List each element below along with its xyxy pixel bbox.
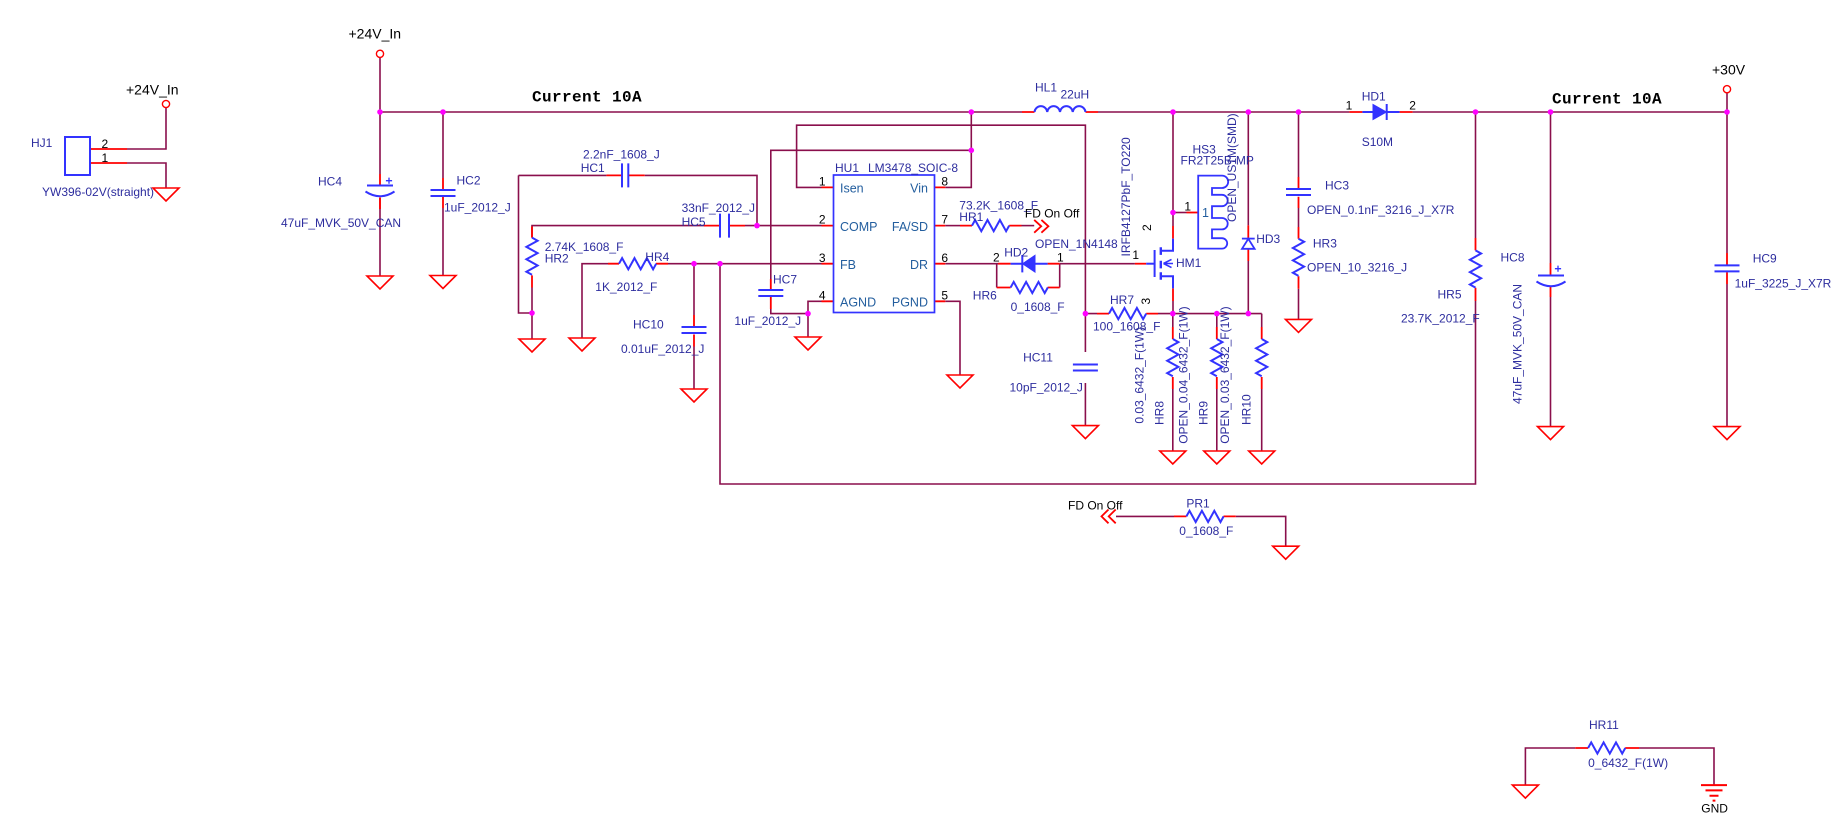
resistor HR2 <box>526 238 537 275</box>
svg-text:2: 2 <box>102 137 109 151</box>
svg-text:DR: DR <box>910 258 928 272</box>
wire HR8 legs <box>1172 314 1174 451</box>
wire sense row <box>1173 313 1262 315</box>
svg-text:6: 6 <box>941 251 948 265</box>
wire HM1 drain to bus <box>1172 112 1174 226</box>
wire HL1 stubs <box>1022 111 1098 113</box>
ground at HC8 <box>1538 427 1564 440</box>
svg-text:1: 1 <box>1346 99 1353 113</box>
wire HM1 source down to sense row <box>1172 301 1174 314</box>
ground at HC10 <box>681 389 707 402</box>
svg-text:OPEN_0.03_6432_F(1W): OPEN_0.03_6432_F(1W) <box>1218 306 1232 443</box>
svg-text:HR7: HR7 <box>1110 293 1134 307</box>
svg-text:HC3: HC3 <box>1325 179 1349 193</box>
capacitor HC4 (polarized) <box>366 178 395 197</box>
wire HR10 stubs <box>1261 327 1263 389</box>
svg-text:2: 2 <box>1409 99 1416 113</box>
svg-text:23.7K_2012_F: 23.7K_2012_F <box>1401 312 1480 326</box>
wire +24V_In terminal drop <box>379 58 381 113</box>
svg-text:FA/SD: FA/SD <box>892 220 928 234</box>
wire HR6 stubs <box>997 287 1060 289</box>
transistor HM1 (N-MOSFET) <box>1146 239 1173 289</box>
svg-text:+24V_In: +24V_In <box>126 82 179 98</box>
wire HC5 stubs <box>704 225 745 227</box>
capacitor HC2 <box>431 190 456 196</box>
node switch/drain tap <box>1170 109 1176 115</box>
wire HR11 stubs <box>1575 747 1639 749</box>
node COMP/HC1/HC5 <box>754 223 760 229</box>
svg-text:3: 3 <box>1139 298 1153 305</box>
node HC3 tap <box>1296 109 1302 115</box>
svg-text:HD2: HD2 <box>1004 246 1028 260</box>
wire Isen pin loop over to HR7 <box>797 125 1086 313</box>
svg-text:+30V: +30V <box>1712 62 1746 78</box>
wire HJ1 pin 1 stub <box>90 162 127 164</box>
wire HC11 branch below HR7 junction <box>1084 314 1086 426</box>
svg-text:PR1: PR1 <box>1186 496 1210 510</box>
svg-text:HR4: HR4 <box>645 250 669 264</box>
wire PR1 row <box>1116 516 1286 546</box>
wire FB feedback loop bottom <box>720 264 1476 484</box>
wire +30V terminal drop <box>1726 93 1728 112</box>
svg-text:0_6432_F(1W): 0_6432_F(1W) <box>1588 756 1668 770</box>
wire Vin branch: bus down to pin 8 <box>945 112 971 187</box>
ground at HR4 <box>569 338 595 351</box>
svg-text:FB: FB <box>840 258 856 272</box>
wire HS3 pin1 stub <box>1187 212 1199 214</box>
terminal +24V_In (HJ1) <box>162 100 169 107</box>
wire HM1 source stub <box>1172 288 1174 301</box>
diode HD2 (pointing left) <box>1011 255 1048 272</box>
svg-text:HR9: HR9 <box>1197 401 1211 425</box>
connector HJ1 <box>65 137 90 175</box>
capacitor HC8 (polarized) <box>1537 266 1566 287</box>
svg-text:7: 7 <box>941 213 948 227</box>
svg-text:OPEN_0.1nF_3216_J_X7R: OPEN_0.1nF_3216_J_X7R <box>1307 203 1455 217</box>
wire HJ1 pin 2 stub <box>90 148 127 150</box>
wire HC3 stubs <box>1298 177 1300 208</box>
svg-text:10pF_2012_J: 10pF_2012_J <box>1010 381 1083 395</box>
svg-text:47uF_MVK_50V_CAN: 47uF_MVK_50V_CAN <box>281 216 401 230</box>
wire +24V_In bus left segment <box>380 111 1022 113</box>
wire HD1 stubs <box>1349 111 1412 113</box>
wire HR9 legs <box>1216 314 1218 451</box>
node Vin/HC7 branch <box>969 148 975 154</box>
wire HC4 branch <box>379 112 381 276</box>
ground at HC4 <box>367 276 393 289</box>
svg-text:HR1: HR1 <box>959 210 983 224</box>
svg-text:HM1: HM1 <box>1176 256 1202 270</box>
wire HC2 branch <box>442 112 444 276</box>
wire HD2 stubs <box>998 263 1060 265</box>
wire bus HD1 to +30V <box>1413 111 1727 113</box>
node HR5 tap <box>1473 109 1479 115</box>
wire HC2 stubs <box>442 178 444 208</box>
node HC2 tap <box>440 109 446 115</box>
svg-text:22uH: 22uH <box>1061 87 1090 101</box>
inductor HL1 <box>1035 106 1086 112</box>
resistor HR7 <box>1109 308 1146 319</box>
wire HD2 to HM1 gate <box>1060 263 1135 265</box>
svg-text:HR11: HR11 <box>1589 718 1619 732</box>
wire HJ1 pin1 to ground <box>127 163 166 188</box>
node sense/HR9 <box>1214 311 1220 317</box>
resistor HR3 <box>1293 239 1304 276</box>
wire HR4 stubs <box>608 263 668 265</box>
wire HC3 HR3 chain <box>1298 112 1300 319</box>
earth ground GND at HR11 right <box>1701 785 1727 801</box>
ground at AGND <box>795 337 821 350</box>
ground at HC11 <box>1072 426 1098 439</box>
svg-text:OPEN_1N4148: OPEN_1N4148 <box>1035 237 1118 251</box>
svg-text:2: 2 <box>1140 224 1154 231</box>
off-page connector FD On Off (left) <box>1102 510 1116 524</box>
node FB/HR4/HC10 <box>691 261 697 267</box>
resistor HR4 <box>619 258 656 269</box>
capacitor HC3 <box>1286 189 1311 195</box>
ground at HR10 <box>1249 451 1275 464</box>
svg-text:PGND: PGND <box>892 296 928 310</box>
svg-text:1uF_2012_J: 1uF_2012_J <box>734 314 801 328</box>
ground at HR3 <box>1286 319 1312 332</box>
svg-text:FR2T25B-MP: FR2T25B-MP <box>1181 153 1254 167</box>
wire HR7 stubs <box>1097 313 1158 315</box>
resistor HR8 <box>1167 339 1178 376</box>
node HR7/HC11 <box>1083 311 1089 317</box>
svg-text:Vin: Vin <box>910 182 928 196</box>
node sense/HR8 <box>1170 311 1176 317</box>
svg-text:HC7: HC7 <box>773 273 797 287</box>
svg-text:S10M: S10M <box>1362 135 1393 149</box>
ground at HR9 <box>1204 451 1230 464</box>
wire HR8 stubs <box>1172 327 1174 389</box>
svg-text:0_1608_F: 0_1608_F <box>1011 300 1065 314</box>
svg-text:LM3478_SOIC-8: LM3478_SOIC-8 <box>868 161 958 175</box>
svg-text:HC5: HC5 <box>682 215 706 229</box>
wire HM1 gate stub <box>1135 263 1146 265</box>
ground at PR1 <box>1273 546 1299 559</box>
svg-text:HL1: HL1 <box>1035 81 1057 95</box>
node +30V/HC9 <box>1724 109 1730 115</box>
node HC8 tap <box>1548 109 1554 115</box>
svg-text:COMP: COMP <box>840 220 878 234</box>
resistor HR9 <box>1211 339 1222 376</box>
node HD3 tap <box>1246 109 1252 115</box>
wire HC9 branch <box>1726 112 1728 427</box>
wire COMP row: HR2 top along to HC5 and COMP pin <box>532 226 822 238</box>
svg-text:100_1608_F: 100_1608_F <box>1093 319 1160 333</box>
wire HC8 branch <box>1550 112 1552 427</box>
wire HR11 right to GND <box>1639 748 1714 785</box>
svg-text:2: 2 <box>819 213 826 227</box>
svg-text:1uF_3225_J_X7R: 1uF_3225_J_X7R <box>1735 277 1832 291</box>
svg-text:HC8: HC8 <box>1501 251 1525 265</box>
svg-text:1: 1 <box>1057 251 1064 265</box>
ground at HJ1 <box>153 188 179 201</box>
ground at HR11 left <box>1512 785 1538 798</box>
svg-text:FD On Off: FD On Off <box>1068 499 1123 513</box>
svg-text:1: 1 <box>1202 206 1209 220</box>
capacitor HC1 <box>622 163 628 187</box>
wire HR1 lead to chevron <box>1022 225 1035 227</box>
resistor HR5 <box>1470 250 1481 287</box>
wire FB row <box>668 263 822 265</box>
svg-text:0_1608_F: 0_1608_F <box>1179 524 1233 538</box>
svg-text:HC2: HC2 <box>457 174 481 188</box>
svg-text:HR8: HR8 <box>1153 401 1167 425</box>
wire HC1 left leg down to HR2 bottom junction <box>519 175 533 313</box>
svg-text:AGND: AGND <box>840 296 876 310</box>
svg-text:OPEN_US1M(SMD): OPEN_US1M(SMD) <box>1225 113 1239 222</box>
svg-text:1K_2012_F: 1K_2012_F <box>595 280 657 294</box>
wire HR3 stubs <box>1298 227 1300 289</box>
svg-text:4: 4 <box>819 289 826 303</box>
terminal +30V <box>1723 86 1730 93</box>
off-page connector FD On Off (right) <box>1034 220 1048 233</box>
svg-text:HD1: HD1 <box>1362 90 1386 104</box>
node AGND/HC7 <box>805 311 811 317</box>
heatsink HS3 comb symbol <box>1198 176 1228 249</box>
svg-text:Current 10A: Current 10A <box>532 89 642 107</box>
resistor HR6 <box>1011 282 1048 293</box>
svg-text:Current 10A: Current 10A <box>1552 91 1662 109</box>
svg-text:HR3: HR3 <box>1313 236 1337 250</box>
wire HC1 horizontal <box>519 175 758 225</box>
svg-text:HC4: HC4 <box>318 175 342 189</box>
resistor PR1 <box>1186 511 1223 522</box>
svg-text:HC10: HC10 <box>633 317 664 331</box>
svg-text:HD3: HD3 <box>1256 232 1280 246</box>
wire DR row to HD2 <box>945 263 998 265</box>
svg-text:IRFB4127PbF_TO220: IRFB4127PbF_TO220 <box>1119 137 1133 257</box>
svg-text:HC1: HC1 <box>581 161 605 175</box>
wire HC9 stubs <box>1726 253 1728 284</box>
wire HC8 stubs <box>1550 263 1552 297</box>
wire HR11 left to ground <box>1525 748 1575 785</box>
svg-text:2.2nF_1608_J: 2.2nF_1608_J <box>583 147 660 161</box>
wire HS3 pin 1 branch <box>1173 212 1187 214</box>
svg-text:2: 2 <box>993 251 1000 265</box>
wire HD3 stubs <box>1247 225 1249 261</box>
op-amp U1 : IC HU1 LM3478 SOIC-8 body <box>834 175 935 313</box>
wire HC10 stubs <box>693 315 695 347</box>
svg-text:1: 1 <box>102 151 109 165</box>
wire HC1 stubs <box>606 174 644 176</box>
capacitor HC7 <box>758 290 783 296</box>
svg-text:+24V_In: +24V_In <box>349 26 402 42</box>
node Vin tap <box>969 109 975 115</box>
svg-text:47uF_MVK_50V_CAN: 47uF_MVK_50V_CAN <box>1511 284 1525 404</box>
node HR2 bottom <box>529 310 535 316</box>
wire HM1 drain stub <box>1172 226 1174 239</box>
wire HR1 left lead <box>945 225 960 227</box>
diode HD3 (pointing up, open) <box>1242 239 1255 249</box>
wire HR4 left to ground <box>582 264 608 338</box>
wire PR1 stubs <box>1174 515 1236 517</box>
wire HR1 stubs <box>960 225 1022 227</box>
node FB/loop <box>717 261 723 267</box>
svg-text:YW396-02V(straight): YW396-02V(straight) <box>42 185 154 199</box>
ground at HC2 <box>430 276 456 289</box>
svg-text:8: 8 <box>941 175 948 189</box>
diode HD1 S10M (pointing right, filled) <box>1362 104 1399 120</box>
svg-text:HJ1: HJ1 <box>31 136 53 150</box>
svg-text:FD On Off: FD On Off <box>1025 207 1080 221</box>
node sense/HD3 <box>1246 311 1252 317</box>
svg-text:5: 5 <box>941 289 948 303</box>
wire HD3 branch <box>1247 112 1249 314</box>
svg-text:HU1: HU1 <box>835 161 859 175</box>
svg-text:HC9: HC9 <box>1753 251 1777 265</box>
svg-text:HC11: HC11 <box>1023 351 1053 365</box>
svg-text:HR10: HR10 <box>1240 394 1254 425</box>
svg-text:GND: GND <box>1701 802 1728 816</box>
ground at HC9 <box>1714 427 1740 440</box>
node drain/HS3 <box>1170 210 1176 216</box>
capacitor HC9 <box>1715 265 1740 271</box>
wire HR7 leads <box>1085 313 1172 315</box>
resistor HR10 <box>1256 339 1267 376</box>
wire HR2 stubs <box>531 227 533 288</box>
svg-text:1: 1 <box>1184 199 1191 213</box>
svg-text:Isen: Isen <box>840 182 864 196</box>
terminal +24V_In (bus) <box>376 50 383 57</box>
svg-text:HR2: HR2 <box>545 252 569 266</box>
wire HR10 legs <box>1261 314 1263 451</box>
wire HC7 bottom to AGND junction <box>771 309 808 314</box>
wire HC4 stubs <box>379 174 381 209</box>
resistor HR11 <box>1588 742 1625 753</box>
ground at HR2/HC1 <box>519 339 545 352</box>
wire IC pin stubs 1-4 <box>822 187 834 301</box>
wire HJ1 pin2 to +24V_In terminal <box>127 108 166 150</box>
wire HR5 branch from bus <box>1475 112 1477 238</box>
svg-text:0.01uF_2012_J: 0.01uF_2012_J <box>621 342 704 356</box>
svg-text:OPEN_10_3216_J: OPEN_10_3216_J <box>1307 260 1407 274</box>
wire HR6 parallel drops <box>997 264 1060 288</box>
capacitor HC10 <box>682 327 707 333</box>
wire IC pin stubs 5-8 <box>935 187 946 301</box>
wire AGND pin to ground <box>808 301 822 337</box>
wire PGND pin to ground <box>945 301 960 375</box>
svg-text:1: 1 <box>819 175 826 189</box>
wire HC10 branch <box>693 264 695 389</box>
node bus/+24V <box>377 109 383 115</box>
wire HR5 stubs <box>1475 238 1477 301</box>
wire HC7 stubs <box>770 279 772 309</box>
svg-text:1uF_2012_J: 1uF_2012_J <box>444 201 511 215</box>
capacitor HC11 <box>1073 365 1098 371</box>
svg-text:0.03_6432_F(1W): 0.03_6432_F(1W) <box>1132 327 1146 424</box>
svg-text:1: 1 <box>1132 248 1139 262</box>
ground at HR8 <box>1160 451 1186 464</box>
resistor HR1 <box>972 220 1009 231</box>
svg-text:3: 3 <box>819 251 826 265</box>
svg-text:33nF_2012_J: 33nF_2012_J <box>682 201 755 215</box>
svg-text:OPEN_0.04_6432_F(1W): OPEN_0.04_6432_F(1W) <box>1177 306 1191 443</box>
wire HR2 bottom to ground junction <box>531 288 533 340</box>
capacitor HC5 <box>720 214 729 238</box>
svg-text:HR6: HR6 <box>973 288 997 302</box>
svg-text:HR5: HR5 <box>1438 287 1462 301</box>
wire Vin to HC7 top <box>771 150 972 279</box>
wire bus right of HL1 to HD1 <box>1098 111 1349 113</box>
wire HR9 stubs <box>1216 327 1218 389</box>
ground at PGND <box>947 375 973 388</box>
